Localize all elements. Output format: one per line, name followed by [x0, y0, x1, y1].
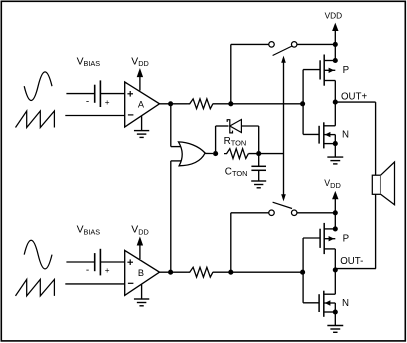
svg-text:CTON: CTON: [225, 167, 248, 178]
svg-text:-: -: [86, 265, 89, 276]
svg-text:P: P: [343, 65, 349, 76]
svg-text:+: +: [105, 266, 110, 275]
svg-text:VDD: VDD: [325, 10, 343, 20]
svg-text:-: -: [86, 97, 89, 108]
svg-text:VBIAS: VBIAS: [77, 56, 101, 68]
svg-text:+: +: [105, 98, 110, 107]
svg-text:N: N: [342, 130, 349, 141]
svg-text:B: B: [138, 268, 144, 278]
svg-text:VBIAS: VBIAS: [77, 225, 101, 237]
svg-text:OUT+: OUT+: [341, 91, 367, 102]
svg-text:N: N: [342, 298, 349, 309]
svg-text:P: P: [343, 233, 349, 244]
svg-text:A: A: [138, 100, 145, 110]
svg-text:OUT-: OUT-: [340, 256, 363, 267]
svg-text:RTON: RTON: [224, 136, 247, 147]
svg-text:VDD: VDD: [131, 56, 148, 68]
svg-text:VDD: VDD: [131, 225, 148, 237]
